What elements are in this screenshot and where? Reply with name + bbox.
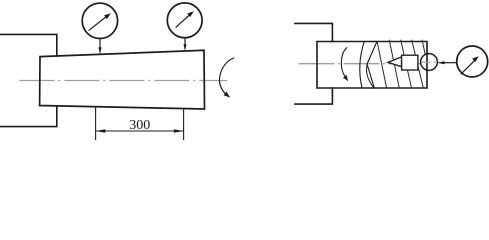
centerline (right view axis) — [299, 63, 437, 65]
taper bore cone chevron — [367, 42, 377, 89]
tapered workpiece — [40, 50, 205, 109]
svg-text:300: 300 — [129, 118, 150, 133]
dial indicator B3 needle — [461, 61, 474, 74]
dimension line 300 — [96, 130, 184, 132]
dial indicator B2 stem — [184, 38, 186, 45]
dimension extension line left — [95, 107, 97, 140]
test mandrel body — [402, 55, 418, 70]
dial indicator B1 needle — [89, 17, 106, 30]
support block (left view) — [0, 34, 57, 126]
taper bore break curve — [360, 42, 365, 89]
test mandrel cone — [388, 57, 402, 67]
test mandrel knob — [421, 54, 438, 71]
dial indicator B2 needle — [176, 15, 189, 27]
support block (right view) — [295, 23, 333, 104]
sleeve right edge over knob — [426, 54, 428, 71]
dial indicator B3 circle — [457, 46, 488, 77]
dial indicator B2 circle — [167, 3, 202, 38]
dimension extension line right — [183, 109, 185, 140]
centerline (left view axis) — [19, 80, 227, 82]
spindle sleeve body — [317, 42, 427, 89]
section hatching — [377, 40, 427, 88]
rotation arrow (left view) — [219, 58, 233, 94]
taper bore inner hook — [367, 65, 375, 89]
measuring arrow to mandrel — [444, 62, 457, 64]
knob centerline dash — [422, 61, 436, 63]
rotation arrow (right view) — [341, 48, 346, 76]
dial indicator B1 stem — [99, 39, 101, 49]
dial indicator B1 circle — [82, 3, 117, 38]
